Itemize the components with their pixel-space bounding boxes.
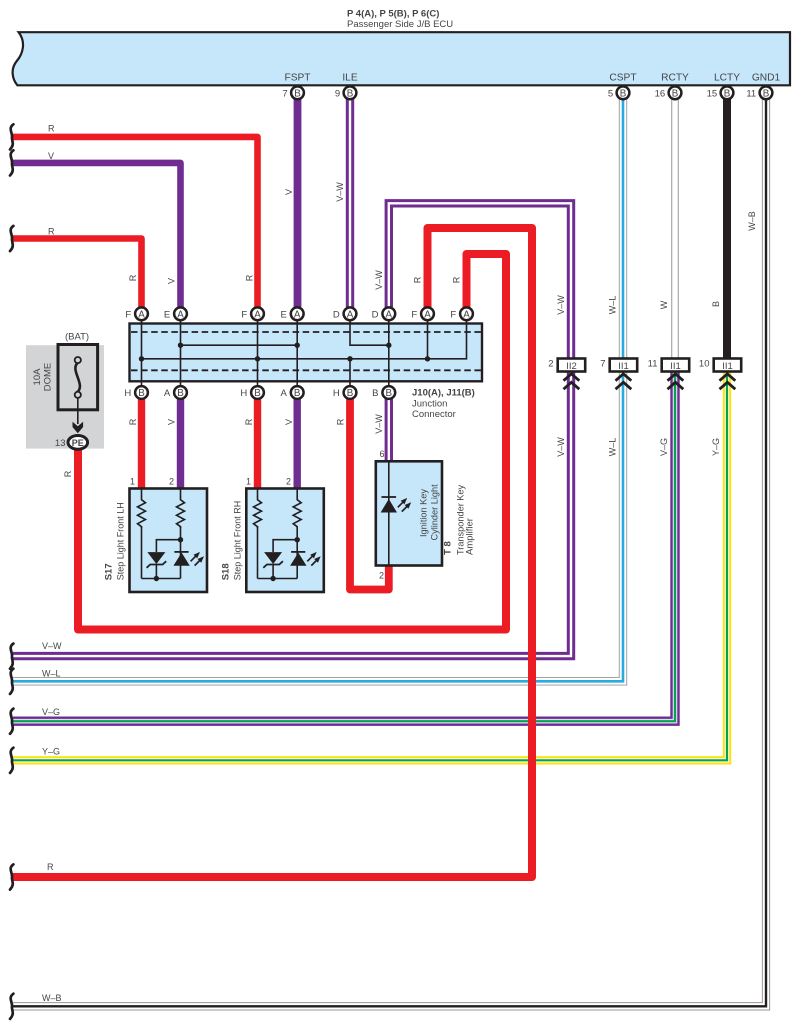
wire junction internal F(A)3 to H(B)3 — [257, 314, 259, 392]
junction top pin E(A)2 — [164, 307, 187, 320]
svg-text:Cylinder Light: Cylinder Light — [430, 484, 440, 541]
wire S17 right branch down — [180, 527, 182, 579]
svg-text:R: R — [48, 227, 55, 237]
svg-text:DOME: DOME — [42, 363, 53, 392]
wire junction internal bus A — [181, 344, 298, 346]
node bus B at F3 — [255, 356, 260, 361]
wire S17 zener branch — [156, 540, 180, 552]
wire R stub to junction F(A)3 — [13, 124, 258, 308]
junction connector J10(A) J11(B) box — [130, 324, 483, 421]
svg-text:R: R — [451, 276, 461, 283]
in-line connector II1 pin 10 — [699, 359, 741, 390]
svg-text:6: 6 — [379, 449, 384, 459]
svg-text:E: E — [281, 309, 287, 320]
svg-text:V–G: V–G — [42, 707, 60, 717]
svg-text:16: 16 — [655, 89, 666, 100]
junction top pin F(A)3 — [241, 307, 264, 320]
svg-text:V–W: V–W — [335, 182, 345, 202]
svg-text:F: F — [125, 309, 131, 320]
svg-text:V–G: V–G — [659, 438, 669, 456]
svg-text:V–W: V–W — [374, 414, 384, 434]
svg-text:II1: II1 — [722, 361, 733, 372]
wire S18 left branch down — [257, 527, 259, 579]
node bus B at F7 — [425, 356, 430, 361]
squiggle V1 — [10, 150, 13, 175]
svg-text:7: 7 — [282, 89, 287, 100]
svg-text:D: D — [333, 309, 340, 320]
wire V stub to junction E(A)2 — [13, 151, 181, 307]
LED S18 — [290, 552, 321, 566]
squiggle Y-G — [10, 748, 13, 773]
svg-text:V–W: V–W — [556, 437, 566, 457]
wire junction internal H(B)5 to bus B — [349, 359, 351, 392]
squiggle W-B — [10, 994, 13, 1019]
resistor S17 pin2 branch — [177, 489, 185, 528]
wire junction internal E(A)2 to A(B)2 — [180, 314, 182, 392]
wire junction internal F(A)7 to bus B — [427, 314, 429, 359]
wire S17 zener to bottom rail — [155, 565, 157, 579]
node step at D6 — [386, 343, 391, 348]
svg-text:R: R — [48, 124, 55, 134]
svg-text:W–L: W–L — [42, 669, 61, 679]
wire junction internal bus B to F(A)8 — [142, 314, 467, 359]
junction top pin E(A)4 — [281, 307, 304, 320]
svg-text:GND1: GND1 — [752, 73, 781, 84]
resistor S18 pin2 branch — [293, 489, 301, 528]
svg-text:W: W — [659, 300, 669, 309]
svg-text:R: R — [412, 276, 422, 283]
svg-text:13: 13 — [55, 438, 66, 449]
S18 step light front RH box — [221, 477, 324, 593]
squiggle R3 — [10, 864, 13, 889]
wire Y-G below II1 to left edge — [13, 371, 727, 760]
svg-text:Y–G: Y–G — [42, 747, 60, 757]
svg-text:W–L: W–L — [607, 438, 617, 457]
svg-text:(BAT): (BAT) — [65, 332, 89, 343]
banner pin 11(B) GND1 — [746, 86, 772, 99]
svg-text:Step Light Front RH: Step Light Front RH — [233, 501, 243, 581]
svg-text:R: R — [244, 274, 254, 281]
wire S18 bottom rail — [258, 578, 298, 580]
T8 transponder key amplifier box — [376, 461, 476, 565]
svg-text:R: R — [128, 274, 138, 281]
LED T8 ignition key cylinder light — [381, 497, 412, 513]
svg-text:11: 11 — [648, 359, 658, 370]
wire V junction A(B)4 to S18 pin 2 — [284, 399, 297, 490]
svg-text:W–L: W–L — [607, 296, 617, 315]
junction top pin D(A)6 — [372, 307, 396, 320]
svg-text:A: A — [164, 388, 171, 399]
svg-text:H: H — [240, 388, 247, 399]
squiggle V-G — [10, 709, 13, 734]
wire V-G below II1 to left edge — [13, 371, 675, 721]
junction bottom pin H(B)1 — [124, 386, 148, 399]
node S18 bottom rail — [270, 576, 275, 581]
banner pin 15(B) LCTY — [707, 86, 734, 99]
resistor S17 pin1 branch — [138, 489, 146, 528]
svg-text:5: 5 — [608, 89, 613, 100]
svg-text:V–W: V–W — [42, 641, 62, 651]
node S18 pin2 branch — [295, 537, 300, 542]
svg-text:9: 9 — [335, 89, 340, 100]
wire V-W from junction D(A) looping right to connector II2 — [374, 203, 571, 359]
svg-text:2: 2 — [548, 359, 553, 370]
svg-text:RCTY: RCTY — [661, 73, 689, 84]
svg-text:V–W: V–W — [556, 295, 566, 315]
svg-text:Y–G: Y–G — [711, 438, 721, 456]
wire V-W below II2 to left edge — [13, 371, 571, 656]
wire R junction H(B)1 to S17 pin 1 — [128, 399, 142, 490]
svg-text:D: D — [372, 309, 379, 320]
wire W-L from CSPT to connector II1 — [607, 99, 623, 359]
svg-text:F: F — [450, 309, 456, 320]
wire W from RCTY to connector II1 — [659, 99, 675, 359]
squiggle V-W — [10, 644, 13, 669]
wire junction internal E(A)4 to A(B)4 — [296, 314, 298, 392]
svg-text:7: 7 — [600, 359, 605, 370]
wire junction internal D(A)6 to B(B)6 — [388, 314, 390, 392]
svg-text:CSPT: CSPT — [609, 73, 636, 84]
svg-text:R: R — [244, 418, 254, 425]
junction bottom pin H(B)5 — [333, 386, 357, 399]
pin 13 PE — [55, 436, 88, 450]
fuse holder gray box — [26, 332, 104, 449]
svg-text:Junction: Junction — [412, 399, 447, 410]
wire V-W from ILE to junction pin D(A) — [335, 99, 350, 307]
svg-text:FSPT: FSPT — [284, 73, 310, 84]
junction bottom pin H(B)3 — [240, 386, 264, 399]
svg-text:Passenger Side J/B ECU: Passenger Side J/B ECU — [347, 19, 453, 30]
svg-text:R: R — [47, 862, 54, 872]
svg-text:V: V — [284, 189, 294, 195]
svg-text:B: B — [711, 301, 721, 307]
svg-text:1: 1 — [246, 477, 251, 487]
svg-text:PE: PE — [72, 438, 84, 448]
in-line connector II1 pin 11 — [648, 359, 690, 390]
svg-text:J10(A), J11(B): J10(A), J11(B) — [412, 388, 475, 399]
squiggle R2 — [10, 226, 13, 251]
wire S17 left branch down — [141, 527, 143, 579]
svg-text:B: B — [372, 388, 378, 399]
svg-text:V–W: V–W — [374, 270, 384, 290]
fuse 10A DOME — [32, 345, 98, 410]
svg-text:II2: II2 — [566, 361, 577, 372]
svg-text:V: V — [166, 419, 176, 425]
zener diode S17 — [147, 552, 167, 568]
svg-text:H: H — [124, 388, 131, 399]
svg-text:V: V — [284, 419, 294, 425]
banner pin 7(B) FSPT — [282, 86, 303, 99]
Passenger Side J/B ECU banner box — [13, 32, 790, 85]
svg-text:S17: S17 — [104, 563, 115, 580]
svg-text:2: 2 — [379, 571, 384, 581]
svg-text:A: A — [281, 388, 288, 399]
wire R from junction F(A)8 via fuse loop to PE — [63, 254, 506, 630]
fuse output arrow — [73, 398, 84, 434]
svg-text:Ignition Key: Ignition Key — [419, 489, 429, 537]
wire R junction H(B)3 to S18 pin 1 — [244, 399, 258, 490]
ECU header label P 4(A), P 5(B), P 6(C) — [347, 9, 453, 31]
wire W-L below II1 to left edge — [13, 371, 623, 681]
svg-text:2: 2 — [286, 477, 291, 487]
svg-text:Amplifier: Amplifier — [465, 518, 476, 555]
wire junction internal D(A)5 step to D(A)6 column — [350, 314, 389, 345]
svg-text:F: F — [241, 309, 247, 320]
wire S18 zener branch — [273, 540, 297, 552]
svg-text:11: 11 — [746, 89, 756, 100]
svg-text:F: F — [411, 309, 417, 320]
svg-text:Connector: Connector — [412, 409, 456, 420]
node S17 bottom rail — [154, 576, 159, 581]
wire R junction H(B)5 hook to T8 pin 2 — [335, 399, 388, 590]
zener diode S18 — [263, 552, 283, 568]
svg-text:R: R — [63, 470, 73, 477]
svg-text:P 4(A), P 5(B), P 6(C): P 4(A), P 5(B), P 6(C) — [347, 9, 439, 20]
svg-text:II1: II1 — [670, 361, 681, 372]
wire R stub to junction F(A)1 — [13, 227, 142, 308]
svg-text:E: E — [164, 309, 170, 320]
node bus A at E2 — [178, 343, 183, 348]
wire V from FSPT to junction pin E(A) — [284, 99, 298, 307]
junction bottom pin A(B)4 — [281, 386, 304, 399]
junction bottom pin B(B)6 — [372, 386, 395, 399]
svg-text:15: 15 — [707, 89, 718, 100]
squiggle W-L — [10, 669, 13, 694]
svg-text:2: 2 — [169, 477, 174, 487]
S17 step light front LH box — [104, 477, 208, 593]
svg-text:R: R — [335, 418, 345, 425]
junction top pin D(A)5 — [333, 307, 357, 320]
node bus B at F1 — [139, 356, 144, 361]
svg-text:ILE: ILE — [342, 73, 357, 84]
svg-text:W–B: W–B — [747, 211, 757, 231]
banner pin 16(B) RCTY — [655, 86, 682, 99]
in-line connector II2 pin 2 — [548, 359, 585, 390]
banner pin 9(B) ILE — [335, 86, 356, 99]
wire S17 bottom rail — [142, 578, 181, 580]
svg-text:LCTY: LCTY — [714, 73, 740, 84]
junction top pin F(A)7 — [411, 307, 434, 320]
svg-text:II1: II1 — [618, 361, 629, 372]
node bus A at E4 — [295, 343, 300, 348]
node S17 pin2 branch — [178, 537, 183, 542]
svg-text:1: 1 — [130, 477, 135, 487]
squiggle R1 — [10, 124, 13, 149]
LED S17 — [173, 552, 204, 566]
junction top pin F(A)8 — [450, 307, 473, 320]
wire R from junction F(A)7 down to bottom left edge — [13, 228, 532, 877]
wire S18 zener to bottom rail — [272, 565, 274, 579]
svg-text:Step Light Front LH: Step Light Front LH — [116, 502, 126, 580]
node bus B at H5 — [347, 356, 352, 361]
svg-text:R: R — [128, 418, 138, 425]
svg-text:10: 10 — [699, 359, 710, 370]
wire B from LCTY to connector II1 — [711, 99, 727, 359]
wire S18 right branch down — [296, 527, 298, 579]
junction bottom pin A(B)2 — [164, 386, 187, 399]
svg-text:H: H — [333, 388, 340, 399]
svg-text:S18: S18 — [221, 563, 232, 580]
svg-text:W–B: W–B — [42, 993, 62, 1003]
wire V-W junction B(B)6 to T8 pin 6 — [374, 399, 389, 581]
wire V junction A(B)2 to S17 pin 2 — [166, 399, 180, 490]
junction top pin F(A)1 — [125, 307, 148, 320]
banner pin 5(B) CSPT — [608, 86, 629, 99]
wire junction internal F(A)1 to H(B)1 — [141, 314, 143, 392]
resistor S18 pin1 branch — [254, 489, 262, 528]
svg-text:V: V — [166, 278, 176, 284]
in-line connector II1 pin 7 — [600, 359, 637, 390]
svg-text:T 8: T 8 — [443, 541, 454, 555]
svg-text:V: V — [48, 151, 54, 161]
